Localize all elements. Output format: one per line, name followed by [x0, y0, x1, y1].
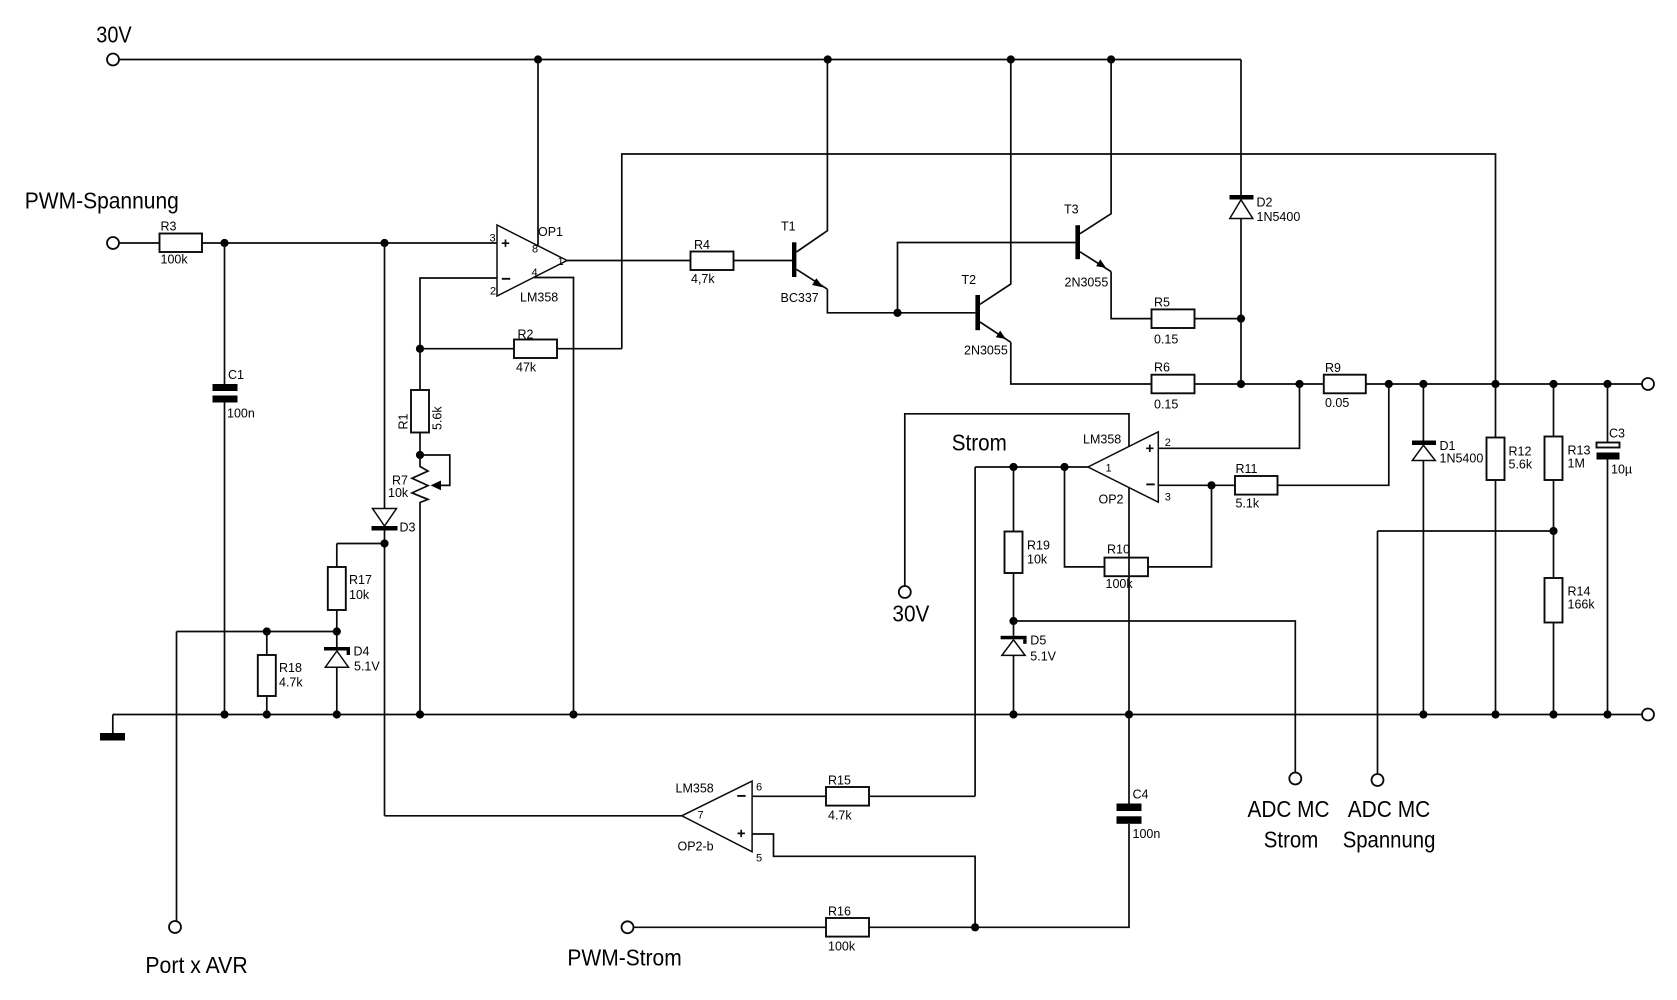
potentiometer R7 zigzag body: [412, 455, 428, 715]
node D4 ground junction: [333, 710, 341, 718]
svg-text:R18: R18: [279, 661, 302, 675]
capacitor C3 polarized: [1597, 427, 1633, 477]
svg-text:4.7k: 4.7k: [828, 809, 852, 823]
wire R16 right to C4 riser: [869, 824, 1129, 927]
svg-text:Strom: Strom: [952, 430, 1007, 456]
node R11 sense tap: [1385, 380, 1393, 388]
capacitor C1: [213, 368, 255, 421]
wire PWM input: [119, 242, 159, 244]
node D5 ground junction: [1009, 710, 1017, 718]
svg-text:10µ: 10µ: [1611, 463, 1632, 477]
svg-text:OP2: OP2: [1099, 493, 1124, 507]
wire OP2-b output to D3 riser: [385, 815, 682, 817]
wire to T3 base: [898, 243, 1076, 313]
resistor R10: [1105, 543, 1149, 592]
svg-text:100n: 100n: [227, 407, 255, 421]
wire R12 bottom lead: [1495, 480, 1497, 715]
resistor R6: [1152, 361, 1195, 412]
node R18 ground junction: [263, 710, 271, 718]
svg-text:R3: R3: [161, 220, 177, 234]
node D1 tap: [1419, 380, 1427, 388]
svg-text:5.6k: 5.6k: [1509, 458, 1533, 472]
terminal Port x AVR: [169, 921, 181, 933]
svg-text:4,7k: 4,7k: [691, 272, 715, 286]
svg-text:Port x AVR: Port x AVR: [145, 952, 247, 978]
node R13/R14 junction: [1549, 527, 1557, 535]
terminal ADC MC Strom: [1289, 773, 1301, 785]
wire D2 bottom to output node: [1240, 219, 1242, 385]
potentiometer R7 wiper loop: [420, 455, 450, 485]
svg-text:OP2-b: OP2-b: [678, 840, 714, 854]
node R19/D5 junction: [1009, 617, 1017, 625]
wire OP1 inverting input to R1/R2 node: [420, 278, 497, 349]
wire OP2 - input to R11: [1158, 484, 1235, 486]
svg-text:R19: R19: [1027, 539, 1050, 553]
wire to R2: [420, 348, 514, 350]
svg-text:47k: 47k: [516, 361, 537, 375]
svg-text:T1: T1: [781, 220, 796, 234]
svg-text:2: 2: [490, 286, 496, 298]
junction on 30V rail to T2 collector: [1007, 55, 1015, 63]
svg-text:R17: R17: [349, 573, 372, 587]
wire D3 cathode down to OP2-b output run: [384, 531, 386, 816]
terminal output plus: [1642, 378, 1654, 390]
svg-text:0.15: 0.15: [1154, 333, 1178, 347]
wire OP2 output down to R15 row: [974, 467, 976, 796]
svg-text:R1: R1: [397, 413, 411, 429]
resistor R9: [1324, 361, 1366, 410]
wire D4 top lead: [336, 632, 338, 648]
svg-text:LM358: LM358: [520, 291, 558, 305]
svg-text:7: 7: [698, 810, 704, 822]
svg-text:10k: 10k: [1027, 553, 1048, 567]
svg-text:5: 5: [756, 853, 762, 865]
wire D1 bottom lead: [1422, 461, 1424, 715]
node R16/C4 row junction: [971, 923, 979, 931]
svg-text:R12: R12: [1509, 445, 1532, 459]
wire R19 bottom lead: [1013, 573, 1015, 621]
node R18 tap: [263, 627, 271, 635]
wire OP2 pin 8 supply loop: [905, 414, 1129, 586]
svg-text:6: 6: [756, 782, 762, 794]
node R14 ground junction: [1549, 710, 1557, 718]
resistor R1: [397, 390, 445, 433]
node R13 tap: [1549, 380, 1557, 388]
svg-text:BC337: BC337: [781, 291, 819, 305]
svg-text:R11: R11: [1236, 462, 1258, 476]
capacitor C4: [1117, 788, 1161, 842]
node T2/T3 base junction: [893, 309, 901, 317]
wire R11 to sense tap right of R9: [1278, 384, 1389, 485]
wire R17 bottom lead: [336, 610, 338, 632]
svg-text:1M: 1M: [1568, 457, 1585, 471]
node R7 ground junction: [416, 710, 424, 718]
node D3 tap: [380, 239, 388, 247]
svg-text:0.15: 0.15: [1154, 398, 1178, 412]
resistor R14: [1545, 578, 1596, 623]
wire T1 emitter down and to T2 base: [827, 289, 975, 313]
svg-text:C1: C1: [228, 368, 244, 382]
wire R17 top lead: [336, 544, 338, 568]
potentiometer R7 labels: [388, 474, 409, 501]
svg-text:C4: C4: [1133, 788, 1149, 802]
svg-text:10k: 10k: [388, 486, 409, 500]
svg-text:2N3055: 2N3055: [1065, 276, 1109, 290]
wire R14 leads: [1553, 531, 1555, 715]
wire D3 anode lead from PWM node: [384, 243, 386, 509]
svg-text:R16: R16: [828, 905, 851, 919]
wire R12 top lead: [1495, 384, 1497, 438]
svg-text:1N5400: 1N5400: [1440, 452, 1484, 466]
svg-text:T2: T2: [962, 273, 977, 287]
wire R2 right to feedback riser: [557, 348, 622, 350]
node R5/D2 junction: [1237, 315, 1245, 323]
svg-text:5.1k: 5.1k: [1236, 497, 1260, 511]
node OP2 pin4 ground junction: [1125, 710, 1133, 718]
svg-text:30V: 30V: [892, 601, 930, 627]
svg-text:Strom: Strom: [1264, 827, 1319, 853]
wire R3 to OP1 + input: [202, 242, 497, 244]
svg-text:10k: 10k: [349, 588, 370, 602]
node R1/R2 junction: [416, 345, 424, 353]
wire PWM-Strom input: [634, 926, 827, 928]
junction on 30V rail to T1 collector: [824, 55, 832, 63]
resistor R2: [514, 328, 557, 375]
wire R19 top lead: [1013, 467, 1015, 532]
wire 30V top rail: [119, 59, 1241, 61]
wire D1 top lead: [1422, 384, 1424, 441]
svg-text:LM358: LM358: [1083, 433, 1121, 447]
diode D3: [372, 509, 416, 535]
svg-text:3: 3: [490, 233, 496, 245]
wire OP2 pin 4 down through rail to C4: [1128, 488, 1130, 804]
terminal 30V top left: [107, 54, 119, 66]
svg-text:100k: 100k: [828, 940, 856, 954]
svg-text:PWM-Strom: PWM-Strom: [567, 945, 681, 971]
wire D5 top lead: [1013, 621, 1015, 636]
resistor R15: [826, 774, 869, 823]
terminal 30V mid: [899, 586, 911, 598]
wire R1 bottom lead: [419, 433, 421, 456]
ground rail: [113, 714, 1642, 716]
wire D2 top lead from 30V rail: [1240, 60, 1242, 196]
wire OP2 + input to sense tap: [1158, 384, 1299, 448]
wire R13 top lead: [1553, 384, 1555, 437]
wire R1 top lead: [419, 349, 421, 390]
node D3 cathode junction: [380, 539, 388, 547]
wire C3 bottom lead: [1607, 460, 1609, 715]
svg-text:1: 1: [558, 256, 564, 268]
svg-text:3: 3: [1165, 492, 1171, 504]
wire OP1 pin 8 supply: [537, 60, 539, 248]
svg-text:PWM-Spannung: PWM-Spannung: [25, 188, 179, 214]
zener diode D5: [1001, 634, 1057, 664]
svg-text:R4: R4: [694, 238, 710, 252]
svg-text:8: 8: [532, 244, 538, 256]
op-amp OP1: [490, 225, 568, 305]
svg-text:ADC MC: ADC MC: [1248, 796, 1330, 822]
svg-text:4.7k: 4.7k: [279, 676, 303, 690]
svg-text:100n: 100n: [1133, 827, 1161, 841]
svg-text:5.1V: 5.1V: [354, 660, 380, 674]
resistor R3: [160, 220, 203, 267]
node C3 tap: [1603, 380, 1611, 388]
svg-text:2: 2: [1165, 437, 1171, 449]
node R19 tap: [1009, 463, 1017, 471]
svg-text:30V: 30V: [96, 22, 132, 48]
transistor T1: [781, 60, 828, 306]
svg-text:R6: R6: [1154, 361, 1170, 375]
terminal PWM-Spannung: [107, 237, 119, 249]
resistor R17: [328, 567, 372, 610]
op-amp OP2-b: [676, 781, 763, 864]
wire junction to ADC Spannung riser: [1378, 530, 1554, 532]
wire D4 bottom lead: [336, 667, 338, 714]
node C1 tap: [220, 239, 228, 247]
wire C3 top lead: [1607, 384, 1609, 443]
svg-text:R15: R15: [828, 774, 851, 788]
svg-text:0.05: 0.05: [1325, 396, 1349, 410]
ground symbol: [100, 715, 125, 741]
ADC MC Strom label: [1248, 796, 1330, 853]
resistor R18: [258, 655, 304, 696]
svg-text:LM358: LM358: [676, 782, 714, 796]
transistor T2: [962, 60, 1011, 358]
wire OP2 output run: [975, 466, 1088, 468]
wire Port x AVR riser: [176, 632, 178, 922]
wire R6 to R9: [1195, 383, 1324, 385]
node C3 ground junction: [1603, 710, 1611, 718]
wire R18 top lead: [266, 632, 268, 656]
svg-text:1N5400: 1N5400: [1257, 210, 1301, 224]
node D2/R6 junction: [1237, 380, 1245, 388]
junction on 30V rail to OP1 pin8: [534, 55, 542, 63]
svg-text:R5: R5: [1154, 296, 1170, 310]
diode D2: [1230, 195, 1301, 224]
wire T2 emitter to R6: [1011, 342, 1152, 384]
svg-text:Spannung: Spannung: [1343, 827, 1436, 853]
resistor R11: [1235, 462, 1278, 511]
node R12/feedback junction: [1491, 380, 1499, 388]
wire R9 to output terminal: [1366, 383, 1642, 385]
svg-text:D4: D4: [354, 645, 370, 659]
potentiometer R7 wiper arrow: [431, 481, 442, 491]
resistor R19: [1005, 532, 1050, 574]
resistor R12: [1487, 438, 1533, 481]
resistor R16: [826, 905, 869, 954]
wire OP2-b inverting input to R15: [752, 795, 826, 797]
svg-text:166k: 166k: [1568, 598, 1596, 612]
resistor R4: [691, 238, 734, 286]
wire C1 bottom lead to ground rail: [224, 403, 226, 715]
zener diode D4: [324, 645, 380, 674]
wire R4 to T1 base: [734, 260, 793, 262]
svg-text:R10: R10: [1107, 543, 1130, 557]
svg-text:ADC MC: ADC MC: [1348, 796, 1431, 822]
node R1/R7 wiper junction: [416, 451, 424, 459]
svg-text:T3: T3: [1064, 203, 1079, 217]
node R12 ground junction: [1491, 710, 1499, 718]
wire D5 bottom lead: [1013, 655, 1015, 714]
svg-text:R13: R13: [1568, 444, 1591, 458]
terminal output minus: [1642, 709, 1654, 721]
svg-text:R2: R2: [518, 328, 534, 342]
svg-text:R14: R14: [1568, 585, 1591, 599]
svg-text:100k: 100k: [161, 253, 189, 267]
node R17/D4 junction: [333, 627, 341, 635]
svg-text:1: 1: [1106, 463, 1112, 475]
transistor T3: [1064, 60, 1111, 290]
node C1 ground junction: [220, 710, 228, 718]
wire ADC Spannung riser: [1377, 531, 1379, 774]
node D1 ground junction: [1419, 710, 1427, 718]
node OP2 + sense tap: [1295, 380, 1303, 388]
svg-text:D5: D5: [1030, 634, 1046, 648]
resistor R5: [1152, 296, 1195, 347]
wire OP2-b non-inverting input path: [752, 834, 975, 927]
node R10 feedback junction: [1060, 463, 1068, 471]
wire R5 to D2 line: [1195, 318, 1242, 320]
wire R15 right to OP2 output riser: [869, 795, 975, 797]
wire junction row to port riser: [177, 631, 337, 633]
wire junction to ADC Strom riser: [1014, 621, 1296, 773]
svg-text:R9: R9: [1325, 361, 1341, 375]
wire feedback line to output node: [622, 154, 1496, 384]
svg-text:D3: D3: [400, 521, 416, 535]
svg-text:C3: C3: [1609, 427, 1625, 441]
svg-text:2N3055: 2N3055: [964, 344, 1008, 358]
wire OP1 pin 4 to ground: [534, 278, 574, 715]
svg-text:5.1V: 5.1V: [1030, 650, 1056, 664]
svg-text:5.6k: 5.6k: [431, 406, 445, 430]
ADC MC Spannung label: [1343, 796, 1436, 853]
terminal PWM-Strom: [622, 921, 634, 933]
wire R10 loop from - input: [1148, 485, 1212, 567]
svg-text:D2: D2: [1257, 196, 1273, 210]
wire R13 bottom lead: [1553, 480, 1555, 531]
wire R10 left to OP2 output node: [1065, 467, 1105, 567]
resistor R13: [1545, 437, 1591, 481]
wire C1 top lead: [224, 243, 226, 384]
svg-text:OP1: OP1: [538, 225, 563, 239]
wire OP1 output to R4: [567, 260, 691, 262]
op-amp OP2: [1083, 432, 1171, 507]
wire junction to R17: [337, 543, 385, 545]
wire R18 bottom lead: [266, 696, 268, 715]
node OP1 pin4 ground junction: [569, 710, 577, 718]
terminal ADC MC Spannung: [1372, 774, 1384, 786]
junction on 30V rail to T3 collector: [1107, 55, 1115, 63]
wire T3 emitter to R5: [1111, 272, 1151, 319]
node R10/R11 junction: [1207, 481, 1215, 489]
diode D1: [1412, 439, 1483, 466]
